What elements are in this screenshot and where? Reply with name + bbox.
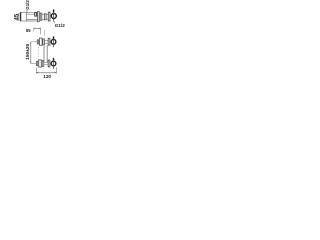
knob ring [51,14,56,19]
upper arm: extension line from dim [31,41,37,43]
upper union nut [40,38,43,45]
dashed centerline between arms [38,47,40,61]
55 dimension line [34,28,41,30]
label G1/2 (right, below ring) [55,23,65,28]
dimension line left of body [18,13,20,21]
leader from G1/2 down to body [26,10,28,13]
lower lever tip [53,58,55,60]
upper lever tip [53,37,55,39]
bottom dim extension right [55,67,57,73]
lower arm: extension line from dim [30,63,36,65]
lower pipe (double line) [27,20,38,22]
svg-text:G1/2: G1/2 [55,23,65,28]
lower second bar [42,61,44,67]
pipe segment [46,15,48,20]
svg-text:45: 45 [14,13,20,20]
upper pipe lines [44,41,48,44]
big nut bar [38,12,40,22]
lower pipe lines [44,62,49,65]
dimension text 150±20 (rotated) [25,43,31,59]
lever tip (thicker top of centerline) [53,10,55,13]
dimension text 45 (rotated, left) [14,13,20,20]
wall flange bar [48,12,50,21]
technical drawing: thermostatic shower mixer, two views [0,0,80,80]
lower union nut [39,60,42,67]
centerline through ring [53,9,55,21]
svg-text:55: 55 [26,28,31,33]
upper ring centerline [53,36,55,47]
pipe segment [42,14,45,19]
55 extension line left [33,28,35,32]
upper wall flange bar [48,38,50,45]
upper washer bar [37,40,38,44]
dimension text 55 [26,28,31,33]
lower washer bar [37,61,38,65]
extension line to outer edge [44,30,46,36]
bottom dimension line 120 [36,72,56,74]
vertical body pipe (left line) [43,45,45,62]
lower ring centerline [53,58,55,69]
lower ring [51,61,56,66]
label G1/2 (vertical, top) [25,0,30,10]
vertical body pipe (right line) [46,45,48,62]
upper ring [51,39,56,44]
svg-text:120: 120 [43,74,51,79]
svg-text:150±20: 150±20 [25,43,31,59]
bottom dim extension left [35,68,37,74]
150±20 dimension line (vertical) [30,42,32,63]
leader to G1/2 label (right) [54,21,56,24]
lower wall flange bar [48,60,50,67]
svg-text:G1/2: G1/2 [25,0,30,10]
wall plate block [21,12,27,21]
step block on upper pipe [35,13,37,17]
55 extension line right [40,28,42,35]
upper second bar [43,39,45,45]
small bar [40,13,42,20]
upper pipe (double line) [27,13,35,15]
wall plate bold left edge [20,12,22,21]
second nut [44,14,46,20]
dimension text 120 [43,74,51,79]
